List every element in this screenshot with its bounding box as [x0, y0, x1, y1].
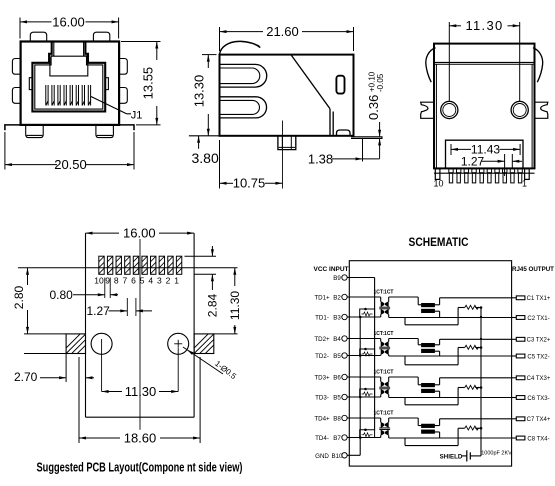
capacitor CT4 center-tap box [359, 428, 375, 438]
side view: dimension 0.36 +0.10/-0.05 [366, 71, 385, 158]
capacitor CT3 center-tap box [359, 388, 375, 399]
svg-text:11.30: 11.30 [125, 384, 157, 399]
schematic input pin TD3- B5 [315, 394, 347, 401]
side view: lower contact finger slot [220, 97, 267, 118]
front view: bottom shield flange [5, 125, 134, 130]
front view: J1 leader and label [91, 97, 142, 122]
svg-text:B2: B2 [333, 295, 341, 302]
bottom view: dimension 11.43 [451, 142, 520, 156]
shield net label [440, 454, 463, 461]
transformer T4 [379, 422, 390, 436]
svg-text:9: 9 [105, 275, 110, 285]
svg-text:2.80: 2.80 [12, 285, 26, 309]
svg-text:1.27: 1.27 [87, 304, 111, 318]
svg-text:B9: B9 [333, 275, 341, 282]
svg-text:TD3-: TD3- [315, 395, 329, 402]
bottom view: shield legs [435, 169, 529, 180]
wire: T4 secondary bottom to output - line [389, 435, 512, 438]
wire: GND bus vertical [359, 317, 361, 455]
transformer T1 [379, 301, 390, 315]
svg-text:13.55: 13.55 [141, 67, 156, 100]
svg-text:1.38: 1.38 [308, 152, 333, 167]
svg-text:6: 6 [131, 275, 136, 285]
side view: solder tail [351, 137, 382, 139]
pcb layout: left slot hatch [24, 334, 86, 354]
wire: channel 1 lower return loop [405, 308, 458, 325]
schematic output pin C1 TX1+ [512, 296, 551, 302]
side view: top spring curl [220, 41, 260, 54]
svg-text:11.30: 11.30 [465, 18, 503, 33]
svg-text:RJ45 OUTPUT: RJ45 OUTPUT [512, 266, 554, 273]
pcb layout: mounting holes [91, 333, 189, 391]
front view: top mounting tabs [30, 32, 110, 41]
wire: T4 secondary top to choke [389, 418, 422, 426]
transformer T3 label 1CT:1CT [373, 370, 393, 376]
wire: TD1+ input line [347, 297, 381, 302]
bottom view: body outline [434, 44, 535, 169]
pcb layout: dimension 11.30 right [228, 268, 242, 334]
side view: bottom line extension [189, 135, 220, 137]
svg-text:C8 TX4-: C8 TX4- [527, 436, 549, 442]
side view: leg centerline [282, 121, 284, 189]
svg-text:8: 8 [114, 275, 119, 285]
pcb layout: center line [139, 239, 141, 430]
svg-text:VCC INPUT: VCC INPUT [313, 266, 348, 273]
svg-text:1: 1 [522, 179, 527, 189]
pcb layout: 10 hatched pads [99, 256, 182, 274]
capacitor CT2 center-tap box [359, 348, 375, 357]
pcb layout: dimension 0.80 [50, 278, 119, 303]
wire: TD1- input line [347, 315, 381, 318]
choke L4 [422, 424, 435, 433]
svg-text:B3: B3 [333, 315, 341, 322]
svg-text:0.80: 0.80 [50, 288, 74, 302]
svg-text:10: 10 [433, 179, 443, 189]
svg-text:TD1-: TD1- [315, 315, 329, 322]
svg-text:C6 TX3-: C6 TX3- [527, 396, 549, 402]
wire: TD2+ input line [347, 339, 381, 342]
wire: choke L1 to output - [435, 311, 440, 317]
wire: common termination bus to shield capacitor [480, 306, 483, 456]
svg-text:16.00: 16.00 [52, 14, 85, 29]
svg-text:TD4-: TD4- [315, 435, 329, 442]
side view: body outline [220, 55, 354, 136]
svg-text:1000pF 2KV: 1000pF 2KV [481, 451, 512, 457]
side view: bottom post leg [278, 136, 296, 150]
svg-text:C4 TX3+: C4 TX3+ [527, 376, 551, 382]
bottom view: pin field rectangle [446, 140, 524, 168]
pcb layout: right slot hatch [194, 334, 237, 354]
schematic output pin C8 TX4- [512, 436, 550, 442]
svg-text:TD2+: TD2+ [314, 336, 330, 343]
wire: choke L2 to output - [435, 351, 440, 356]
bottom view: side board-lock wings [421, 102, 548, 118]
schematic output pin C6 TX3- [512, 396, 550, 402]
svg-text:2.70: 2.70 [14, 370, 38, 384]
pcb layout: pad top/bottom extension lines [185, 256, 217, 274]
transformer T2 label 1CT:1CT [373, 331, 393, 337]
svg-text:Suggested PCB Layout(Compone n: Suggested PCB Layout(Compone nt side vie… [37, 460, 243, 475]
side view: shield hole [336, 76, 344, 94]
front view: bottom legs [26, 125, 114, 138]
schematic input pin TD1- B3 [315, 314, 347, 321]
capacitor C9 1000pF 2KV [462, 450, 513, 461]
svg-text:4: 4 [148, 275, 153, 285]
svg-text:B8: B8 [333, 416, 341, 423]
wire: choke L2 to output + [435, 339, 512, 345]
schematic header RJ45 OUTPUT [512, 266, 554, 273]
svg-text:18.60: 18.60 [124, 431, 157, 446]
bottom view: bottom pin band [434, 168, 535, 173]
pcb layout: dimension 2.70 [14, 354, 94, 385]
schematic input pin TD1+ B2 [314, 294, 347, 301]
svg-text:C5 TX2-: C5 TX2- [527, 354, 549, 360]
wire: TD2- input line [347, 355, 381, 356]
front view: RJ45 jack body outline [21, 42, 120, 125]
wire: choke L4 to output - [435, 432, 440, 438]
pcb layout: dimension 11.30 bottom [102, 384, 179, 399]
schematic output pin C7 TX4+ [512, 417, 551, 423]
pcb layout: dimension 2.80 left [12, 268, 29, 334]
side view: solder foot pad [337, 130, 351, 136]
svg-text:-0.05: -0.05 [376, 73, 385, 92]
front view: center tongue [50, 56, 88, 76]
wire: TD3+ input line [347, 377, 381, 382]
schematic input pin TD2+ B4 [314, 336, 347, 343]
side view: dimension 13.30 [192, 55, 217, 136]
front view: dimension 16.00 [20, 14, 119, 38]
pcb layout: hole leader 1-R0.5 [183, 347, 238, 381]
wire: VCC B9 feed line [347, 277, 375, 279]
svg-text:C7 TX4+: C7 TX4+ [527, 417, 551, 423]
bottom view: inner edge lines [436, 64, 532, 168]
resistor R2 [458, 345, 481, 349]
schematic input pin TD2- B5 [315, 353, 347, 360]
schematic input pin TD3+ B6 [314, 374, 347, 381]
svg-text:B7: B7 [333, 435, 341, 442]
svg-text:21.60: 21.60 [266, 24, 299, 39]
wire: channel 4 lower return loop [405, 428, 458, 445]
svg-text:J1: J1 [131, 110, 143, 122]
pcb layout: dimension 18.60 [79, 357, 200, 446]
schematic border box [349, 261, 511, 466]
svg-text:C3 TX2+: C3 TX2+ [527, 338, 551, 344]
schematic output pin C4 TX3+ [512, 376, 551, 382]
bottom view: corner spring curls [426, 48, 543, 82]
svg-text:10.75: 10.75 [233, 176, 266, 191]
schematic input pin GND B10 [315, 453, 347, 460]
resistor R4 [458, 426, 481, 430]
transformer T4 label 1CT:1CT [373, 411, 393, 417]
side view: dimension 1.38 [308, 138, 380, 166]
wire: T3 secondary top to choke [389, 377, 422, 385]
bottom view: 10 pins [449, 169, 523, 183]
pcb layout: dimension 1.27 [87, 298, 153, 318]
schematic input pin B9 [333, 275, 347, 282]
wire: T2 secondary bottom to output - line [389, 355, 512, 357]
schematic output pin C5 TX2- [512, 354, 550, 360]
bottom view: pin numbers 10 and 1 [433, 179, 527, 189]
schematic input pin TD4+ B8 [314, 415, 347, 422]
side view: upper contact finger slot [220, 64, 267, 87]
svg-text:1: 1 [174, 275, 179, 285]
resistor R1 [458, 305, 481, 309]
svg-text:C1 TX1+: C1 TX1+ [527, 296, 551, 302]
svg-text:1CT:1CT: 1CT:1CT [373, 370, 393, 376]
svg-text:1CT:1CT: 1CT:1CT [373, 290, 393, 296]
svg-text:5: 5 [140, 275, 145, 285]
svg-text:B10: B10 [331, 453, 343, 460]
front view: side EMI bumps [12, 59, 127, 104]
wire: choke L3 to output + [435, 378, 512, 385]
pcb layout: caption [37, 460, 243, 475]
side view: dimension 21.60 [220, 24, 354, 51]
wire: TD4- input line [347, 435, 381, 437]
svg-text:1CT:1CT: 1CT:1CT [373, 411, 393, 417]
svg-text:SHIELD: SHIELD [440, 454, 463, 461]
schematic output pin C3 TX2+ [512, 337, 551, 343]
front view: dimension 20.50 [5, 132, 134, 172]
pcb layout: outline box with 16.00 dimension top [86, 226, 195, 418]
svg-text:TD3+: TD3+ [314, 375, 330, 382]
bottom view: dimension 11.30 [449, 18, 519, 101]
schematic output pin C2 TX1- [512, 316, 550, 322]
svg-text:3: 3 [157, 275, 162, 285]
svg-text:TD4+: TD4+ [314, 416, 330, 423]
schematic input pin TD4- B7 [315, 435, 347, 442]
pcb layout: horizontal line through pads [18, 267, 238, 269]
choke L1 [422, 303, 435, 312]
front view: dimension 13.55 [121, 42, 161, 125]
transformer T2 [379, 341, 390, 355]
svg-text:TD1+: TD1+ [314, 295, 330, 302]
wire: T1 secondary top to choke [389, 297, 422, 305]
wire: choke L3 to output - [435, 391, 440, 397]
wire: T1 secondary bottom to output - line [389, 315, 512, 318]
wire: T2 secondary top to choke [389, 339, 422, 345]
front view: jack opening outer outline [32, 42, 105, 112]
pcb layout: pad numbers [94, 275, 179, 285]
front view: jack opening inner outline [35, 42, 103, 109]
wire: channel 2 lower return loop [405, 348, 458, 365]
svg-text:C2 TX1-: C2 TX1- [527, 316, 549, 322]
svg-text:2: 2 [166, 275, 171, 285]
svg-text:2.84: 2.84 [206, 293, 220, 317]
svg-text:16.00: 16.00 [123, 226, 156, 241]
svg-text:B4: B4 [333, 336, 341, 343]
svg-text:1CT:1CT: 1CT:1CT [373, 331, 393, 337]
wire: choke L4 to output + [435, 419, 512, 426]
svg-text:B6: B6 [333, 375, 341, 382]
svg-text:7: 7 [122, 275, 127, 285]
svg-text:B5: B5 [333, 353, 341, 360]
wire: channel 3 lower return loop [405, 388, 458, 405]
schematic header VCC INPUT [313, 266, 348, 273]
transformer T3 [379, 381, 390, 395]
side view: shield diagonal edge [291, 55, 333, 136]
wire: GND B10 feed line [347, 454, 360, 456]
schematic title [409, 237, 469, 249]
front view: latch notches [29, 78, 108, 90]
side view: dimension 3.80 [192, 136, 219, 166]
svg-text:SCHEMATIC: SCHEMATIC [409, 237, 469, 249]
svg-text:13.30: 13.30 [192, 75, 207, 108]
resistor R3 [458, 385, 481, 389]
bottom view: rear band [434, 63, 535, 65]
svg-text:3.80: 3.80 [192, 150, 219, 166]
choke L3 [422, 383, 435, 392]
wire: choke L1 to output + [435, 298, 512, 305]
svg-text:1.27: 1.27 [461, 154, 485, 168]
svg-text:B5: B5 [333, 395, 341, 402]
svg-text:11.30: 11.30 [228, 291, 242, 320]
wire: TD3- input line [347, 395, 381, 398]
bottom view: mounting post circles [441, 101, 529, 118]
front view: 8 contacts J1 [46, 85, 91, 106]
svg-text:20.50: 20.50 [54, 157, 87, 172]
choke L2 [422, 343, 435, 352]
capacitor CT1 center-tap box [359, 308, 375, 319]
transformer T1 label 1CT:1CT [373, 290, 393, 296]
svg-text:TD2-: TD2- [315, 353, 329, 360]
side view: dimension 10.75 [220, 140, 283, 191]
wire: VCC bus vertical [374, 278, 376, 430]
wire: TD4+ input line [347, 418, 381, 422]
bottom view: dimension 1.27 [461, 154, 522, 176]
wire: T3 secondary bottom to output - line [389, 395, 512, 398]
svg-text:10: 10 [94, 275, 104, 285]
svg-text:0.36: 0.36 [366, 95, 381, 120]
svg-text:GND: GND [315, 453, 329, 460]
pcb layout: dimension 2.84 right [206, 246, 220, 317]
